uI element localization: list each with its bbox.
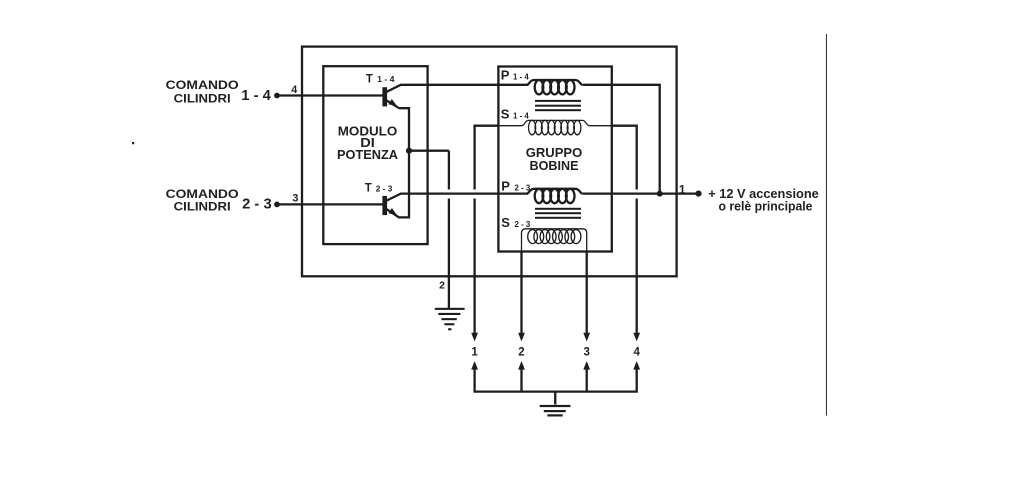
label MODULO DI POTENZA xyxy=(337,123,399,162)
up arrow spark 2 xyxy=(518,361,525,392)
wire coil P2-3 to +12V terminal xyxy=(583,192,699,194)
junction dot emitters xyxy=(406,148,412,154)
svg-text:1 - 4: 1 - 4 xyxy=(513,111,529,121)
svg-text:T: T xyxy=(365,183,372,195)
wire junction to ground pin 2 xyxy=(409,150,449,152)
iron core 1-4 xyxy=(535,100,581,111)
ground symbol bottom xyxy=(540,392,571,417)
up arrow spark 4 xyxy=(633,361,640,392)
svg-text:2 - 3: 2 - 3 xyxy=(376,185,393,194)
svg-text:CILINDRI: CILINDRI xyxy=(174,92,231,106)
svg-text:P: P xyxy=(501,178,510,193)
svg-text:S: S xyxy=(501,215,510,230)
svg-text:2 - 3: 2 - 3 xyxy=(515,182,531,192)
wire base T2-3 xyxy=(277,203,383,205)
label COMANDO CILINDRI 2-3 xyxy=(166,187,272,213)
ground symbol pin 2 xyxy=(435,308,465,331)
coil S1-4 xyxy=(498,120,611,134)
label T 1-4 xyxy=(366,73,395,85)
svg-text:1 - 4: 1 - 4 xyxy=(377,75,395,84)
wire S2-3 left output (spark 2) xyxy=(520,252,522,334)
svg-text:1: 1 xyxy=(471,347,478,359)
arrowhead output 4 xyxy=(633,333,640,342)
svg-text:1 - 4: 1 - 4 xyxy=(513,71,529,81)
coil P2-3 xyxy=(527,189,583,203)
label S 1-4 xyxy=(501,107,529,122)
label P 2-3 xyxy=(501,178,530,193)
svg-text:POTENZA: POTENZA xyxy=(337,147,399,162)
label +12V accensione xyxy=(708,187,819,214)
wire coil P1-4 to +12V junction xyxy=(583,85,660,194)
svg-text:o relè principale: o relè principale xyxy=(719,200,813,214)
label P 1-4 xyxy=(501,67,529,82)
svg-text:1: 1 xyxy=(679,182,686,196)
iron core 2-3 xyxy=(535,208,581,219)
svg-text:BOBINE: BOBINE xyxy=(530,158,579,173)
modulo di potenza box xyxy=(323,66,427,244)
up arrow spark 1 xyxy=(471,361,478,392)
wire T2-3 collector to coil P2-3 xyxy=(400,192,528,194)
label S 2-3 xyxy=(501,215,530,230)
svg-text:2 - 3: 2 - 3 xyxy=(242,197,272,213)
svg-text:1 - 4: 1 - 4 xyxy=(241,88,271,104)
coil P1-4 xyxy=(527,80,583,94)
svg-text:2: 2 xyxy=(518,347,524,359)
label GRUPPO BOBINE xyxy=(526,145,583,173)
arrowhead output 3 xyxy=(583,333,590,342)
wire S1-4 right output (spark 4) xyxy=(612,126,637,334)
label T 2-3 xyxy=(365,183,393,195)
up arrow spark 3 xyxy=(583,361,590,392)
transistor T2-3 xyxy=(382,194,400,218)
arrowhead output 1 xyxy=(471,333,478,342)
svg-text:T: T xyxy=(366,73,373,85)
outer module box xyxy=(302,47,677,277)
junction dot +12V xyxy=(657,191,663,197)
node dot command 2-3 xyxy=(274,202,280,208)
gruppo bobine box xyxy=(498,67,611,252)
node dot command 1-4 xyxy=(274,93,280,99)
transistor T1-4 xyxy=(382,85,400,109)
label COMANDO CILINDRI 1-4 xyxy=(166,78,271,106)
terminal dot +12V xyxy=(695,191,701,197)
svg-text:P: P xyxy=(501,67,510,82)
svg-text:4: 4 xyxy=(633,347,640,359)
wire base T1-4 xyxy=(277,94,383,96)
svg-text:2: 2 xyxy=(439,279,445,291)
svg-text:COMANDO: COMANDO xyxy=(166,78,239,92)
ground bus xyxy=(474,390,638,392)
svg-text:3: 3 xyxy=(292,192,298,204)
arrowhead output 2 xyxy=(518,333,525,342)
svg-text:S: S xyxy=(501,107,510,122)
svg-text:2 - 3: 2 - 3 xyxy=(515,219,531,229)
svg-text:3: 3 xyxy=(583,347,589,359)
svg-text:4: 4 xyxy=(291,84,297,96)
stray dot xyxy=(132,142,134,144)
wire S1-4 left output (spark 1) xyxy=(475,126,499,334)
svg-text:CILINDRI: CILINDRI xyxy=(174,199,231,213)
wire T1-4 collector to coil P1-4 xyxy=(400,84,528,86)
coil S2-3 xyxy=(522,229,587,252)
page rule right xyxy=(826,34,827,416)
wire S2-3 right output (spark 3) xyxy=(586,252,588,334)
wire emitters common vertical xyxy=(398,108,409,217)
